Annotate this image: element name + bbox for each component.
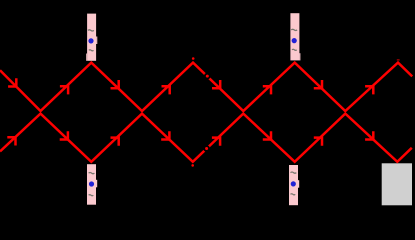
arrow u1 xyxy=(8,78,16,86)
dot above apex 2 xyxy=(192,57,195,60)
arrow l7 xyxy=(314,138,322,146)
wire lower zigzag path xyxy=(0,114,412,162)
detector box D xyxy=(382,163,412,205)
arrow u6 xyxy=(263,86,271,94)
dash-dot break on lower-right edge of diamond 2 xyxy=(203,145,210,152)
arrow l2 xyxy=(60,131,68,139)
dot below bottom vertex 2 xyxy=(191,164,194,167)
mirror hatch marks bottom 1 xyxy=(89,173,95,174)
cavity top 3 (mirror pair) xyxy=(290,13,300,60)
arrow u8 xyxy=(365,86,373,94)
wire upper zigzag path xyxy=(0,63,412,111)
atom (blue) bottom 1 xyxy=(89,181,94,186)
cavity bottom 3 (mirror pair) xyxy=(289,165,299,205)
arrow u2 xyxy=(60,86,68,94)
arrow l8 xyxy=(365,131,373,139)
mirror hatch marks bottom 3 xyxy=(291,172,297,173)
arrow u4 xyxy=(162,86,170,94)
arrow u5 xyxy=(212,80,220,88)
atom (blue) top 1 xyxy=(88,38,93,43)
atom (blue) bottom 3 xyxy=(291,181,296,186)
arrow l5 xyxy=(212,138,220,146)
arrow l4 xyxy=(161,131,169,139)
mirror hatch marks top 3 xyxy=(291,29,297,30)
dark dash above apex 4 xyxy=(397,59,400,60)
arrow u7 xyxy=(314,80,322,88)
arrow l3 xyxy=(111,138,119,146)
arrow u3 xyxy=(111,80,119,88)
arrow l6 xyxy=(263,131,271,139)
mirror hatch marks top 1 xyxy=(88,30,94,31)
dash-dot break on upper-right edge of diamond 2 xyxy=(204,73,211,80)
cavity bottom 1 (mirror pair) xyxy=(87,164,97,205)
cavity top 1 (mirror pair) xyxy=(86,14,97,61)
atom (blue) top 3 xyxy=(292,38,297,43)
arrow l1 xyxy=(7,137,15,145)
